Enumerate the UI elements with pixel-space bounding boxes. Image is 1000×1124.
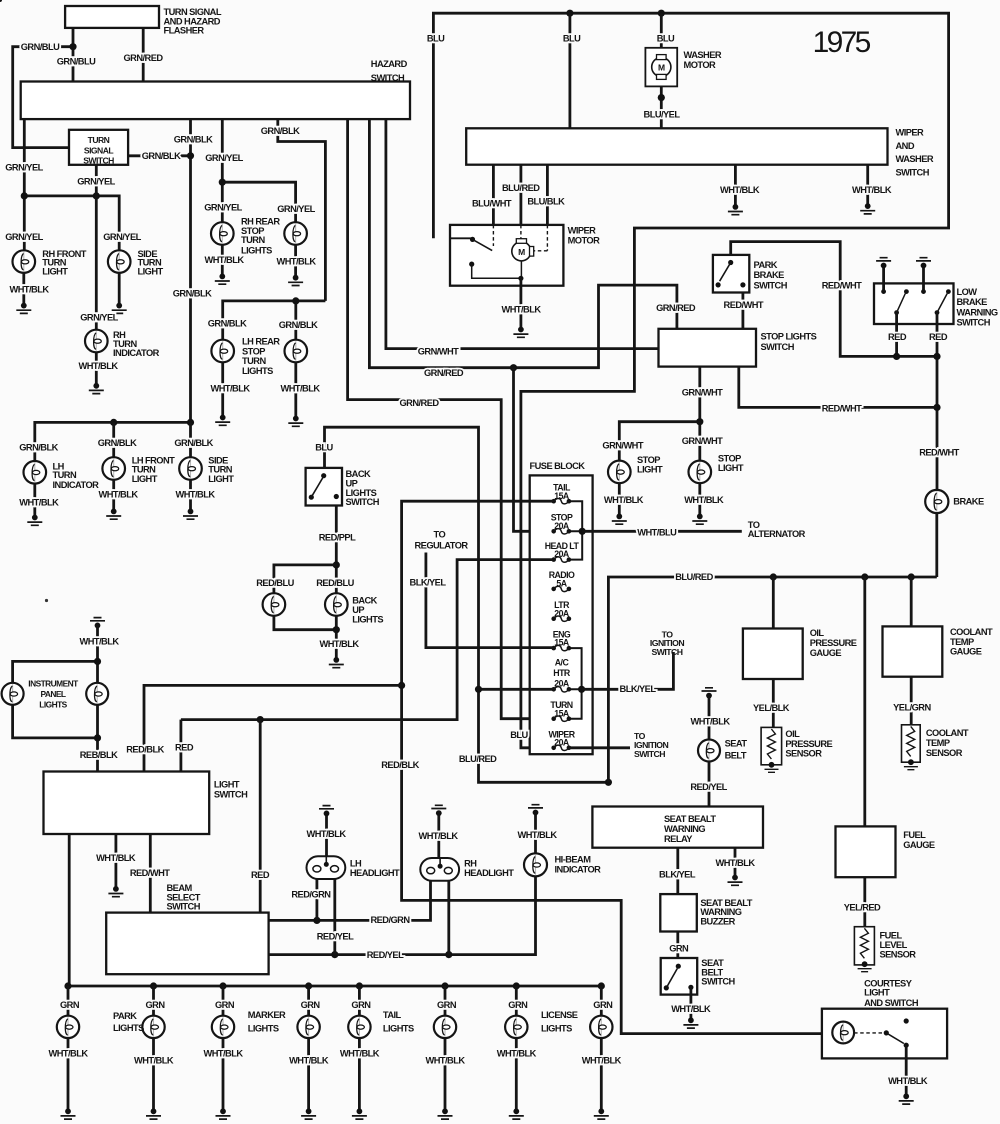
junction RED/BLU [333, 561, 340, 568]
junction instrument top [94, 658, 101, 665]
svg-text:LEVEL: LEVEL [880, 940, 908, 950]
wire BLU to washer motor [660, 13, 663, 48]
bulb license right [590, 1016, 612, 1038]
svg-text:GRN: GRN [593, 1000, 613, 1010]
ground relay [728, 875, 743, 886]
svg-text:RED/WHT: RED/WHT [822, 280, 862, 290]
ground hi-beam [528, 805, 543, 816]
svg-text:WHT/BLK: WHT/BLK [78, 361, 118, 371]
wire WHT/BLK wiper switch gnd 1 [734, 165, 737, 207]
wire GRN/WHT hazard to stop sw [386, 119, 659, 349]
svg-text:RED/WHT: RED/WHT [822, 403, 862, 413]
svg-text:TO: TO [434, 529, 446, 539]
wire lh ind gnd [33, 484, 36, 518]
svg-text:BLK/YEL: BLK/YEL [659, 870, 696, 880]
wire BLU/BLK wiper feed [546, 165, 549, 225]
wire fuel gauge feed [863, 577, 866, 826]
svg-text:GRN/WHT: GRN/WHT [602, 440, 643, 450]
wire WHT/BLK tail right gnd [444, 1038, 447, 1111]
wire GRN drop light 7 [515, 986, 518, 1016]
wire GRN/BLK stub from turn signal switch [128, 154, 190, 157]
svg-text:RED: RED [888, 332, 907, 342]
wire GRN/YEL hazard to RH front turn [23, 119, 26, 262]
svg-text:TEMP: TEMP [926, 738, 950, 748]
svg-text:BEAM: BEAM [167, 883, 193, 893]
ground low brake 1 [876, 258, 891, 269]
wire RED/PPL [335, 506, 338, 605]
bulb RH front turn light [12, 250, 35, 273]
wire oil gauge feed [772, 577, 775, 629]
svg-text:GRN/BLK: GRN/BLK [208, 319, 247, 329]
svg-text:MOTOR: MOTOR [568, 235, 601, 245]
svg-text:GAUGE: GAUGE [950, 647, 982, 657]
wire WHT/BLK wiper motor gnd [520, 278, 523, 329]
svg-text:GRN/BLK: GRN/BLK [142, 151, 181, 161]
svg-text:AND SWITCH: AND SWITCH [864, 998, 919, 1008]
svg-text:WIPER: WIPER [896, 128, 925, 138]
junction BLU washer motor branch [658, 10, 665, 17]
wire GRN/BLK lh front drop [112, 422, 115, 468]
ground wiper switch 1 [728, 204, 743, 215]
junction bus light 1 [64, 982, 71, 989]
wire fuse chain ENG-AC-TURN [569, 648, 582, 719]
svg-text:WHT/BLK: WHT/BLK [280, 384, 320, 394]
wire backup gnd left [274, 616, 336, 630]
svg-text:GRN/WHT: GRN/WHT [682, 436, 723, 446]
RH headlight [420, 858, 459, 881]
bulb marker right [297, 1016, 319, 1038]
junction LH row b [187, 419, 194, 426]
bulb stop light left [608, 461, 631, 484]
svg-text:RED/YEL: RED/YEL [367, 950, 404, 960]
svg-text:RED/BLU: RED/BLU [256, 578, 294, 588]
svg-text:WHT/BLK: WHT/BLK [96, 853, 136, 863]
svg-text:GRN/WHT: GRN/WHT [682, 388, 723, 398]
svg-text:WHT/BLK: WHT/BLK [604, 495, 644, 505]
svg-text:BRAKE: BRAKE [953, 497, 984, 507]
wire brake to bus [935, 513, 938, 577]
svg-text:RED: RED [251, 870, 270, 880]
oil pressure gauge [743, 629, 803, 680]
svg-text:SWITCH: SWITCH [896, 167, 930, 177]
wire WHT/BLK rr right gnd [294, 245, 297, 278]
svg-text:SWITCH: SWITCH [754, 280, 788, 290]
bulb tail right [434, 1016, 456, 1038]
wire GRN drop light 1 [67, 986, 70, 1016]
bulb courtesy light [832, 1022, 854, 1044]
wire RED/GRN beam to headlights [269, 872, 431, 921]
seat belt switch internals [664, 964, 694, 991]
wire GRN bottom bus [68, 985, 601, 988]
fuse WIPER 20A [551, 745, 571, 750]
ground seat belt bulb [702, 688, 717, 699]
wire WHT/BLK lh rear right gnd [294, 362, 297, 418]
ground oil sensor [765, 762, 779, 772]
svg-text:M: M [518, 247, 525, 257]
svg-text:YEL/RED: YEL/RED [844, 902, 881, 912]
junction instrument bottom [94, 734, 101, 741]
bulb back up left [263, 593, 286, 616]
fuse HEAD LT 20A [551, 557, 571, 562]
hazard switch [21, 82, 410, 120]
junction RED/GRN lh [313, 917, 320, 924]
wire BLU supply top bus [433, 13, 948, 748]
coolant temp sensor [902, 725, 921, 762]
svg-text:LIGHTS: LIGHTS [241, 246, 272, 256]
junction GRN/BLK LH rear [292, 297, 299, 304]
wire WHT/BLK sbs gnd [690, 987, 693, 1020]
svg-text:WASHER: WASHER [896, 154, 934, 164]
svg-text:LIGHT: LIGHT [208, 474, 234, 484]
wire GRN/YEL branch RH rear right [222, 182, 295, 233]
bulb LH rear stop turn left [211, 340, 234, 363]
bulb marker left [212, 1016, 234, 1038]
svg-text:OIL: OIL [810, 628, 825, 638]
wire RED low brake 1 [895, 313, 898, 357]
svg-text:WIPER: WIPER [568, 226, 597, 236]
low brake warning switch [874, 283, 954, 324]
svg-text:RED/YEL: RED/YEL [317, 931, 354, 941]
junction fuse chain BLK/YEL [578, 686, 585, 693]
junction RED/YEL rh [445, 951, 452, 958]
junction GRN/YEL b [93, 192, 100, 199]
svg-text:BLU/WHT: BLU/WHT [472, 199, 512, 209]
svg-text:RED/WHT: RED/WHT [724, 300, 764, 310]
wire RED light switch drop [179, 720, 182, 772]
svg-text:WHT/BLK: WHT/BLK [9, 285, 49, 295]
wire flasher left leg GRN/BLU [72, 28, 75, 82]
ground side turn [112, 303, 127, 314]
svg-text:LIGHTS: LIGHTS [242, 366, 273, 376]
svg-text:SWITCH: SWITCH [652, 647, 683, 657]
svg-text:WHT/BLK: WHT/BLK [425, 1056, 465, 1066]
ground stop light right [692, 514, 707, 525]
svg-text:WHT/BLK: WHT/BLK [497, 1049, 537, 1059]
ground stop light left [612, 514, 627, 525]
svg-text:SENSOR: SENSOR [785, 749, 822, 759]
LH headlight [307, 856, 346, 879]
svg-text:BLU: BLU [315, 443, 333, 453]
wire BLU/RED bus to gauges [608, 577, 936, 782]
low brake warning switch internals [881, 289, 951, 315]
wire GRN drop light 3 [222, 986, 225, 1016]
wire BLU/RED net [325, 427, 609, 782]
junction RED/WHT c [933, 404, 940, 411]
wiper motor internals [0, 0, 547, 281]
wire BLU/YEL washer to switch [660, 86, 663, 128]
ground license left [509, 1108, 524, 1119]
wire instrument lights loop [13, 661, 98, 738]
ground backup lights [329, 657, 344, 668]
svg-text:WHT/BLK: WHT/BLK [276, 257, 316, 267]
svg-text:REB/BLK: REB/BLK [80, 750, 118, 760]
svg-text:MOTOR: MOTOR [684, 60, 717, 70]
wire WHT/BLK marker right gnd [307, 1038, 310, 1111]
junction bus light 8 [598, 982, 605, 989]
ground instrument lights [90, 618, 105, 629]
wire backup gnd right [335, 616, 338, 660]
wire RED to beam select [259, 720, 262, 913]
ground park left [61, 1108, 76, 1119]
junction RED/BLK light switch branch [398, 682, 405, 689]
junction bus light 7 [513, 982, 520, 989]
wire GRN/RED to stop fuse [514, 368, 553, 532]
ground RH front turn [16, 303, 31, 314]
wire BLK/YEL AC fuse to ignition [479, 688, 556, 691]
svg-text:WHT/BLK: WHT/BLK [175, 489, 215, 499]
svg-text:GRN/YEL: GRN/YEL [5, 232, 43, 242]
junction backup gnd [333, 626, 340, 633]
wire GRN/RED hazard to stop sw [369, 119, 677, 368]
svg-text:WHT/BLK: WHT/BLK [98, 489, 138, 499]
svg-text:BLU: BLU [427, 33, 445, 43]
junction BLU/RED relay [605, 779, 612, 786]
wire GRN/BLK to LH rear lights [278, 119, 326, 301]
svg-text:BLU/RED: BLU/RED [459, 754, 497, 764]
coolant temp gauge [883, 626, 943, 676]
svg-text:RED/WHT: RED/WHT [919, 448, 959, 458]
svg-text:PRESSURE: PRESSURE [810, 638, 857, 648]
svg-text:WHT/BLK: WHT/BLK [690, 716, 730, 726]
wire RED light switch feed [181, 718, 260, 721]
wire BLK/YEL to ignition switch [582, 652, 674, 689]
svg-text:SWITCH: SWITCH [214, 790, 248, 800]
ground wiper motor [513, 327, 528, 338]
wire lh front gnd [112, 480, 115, 512]
svg-text:WHT/BLK: WHT/BLK [715, 858, 755, 868]
svg-text:GRN/YEL: GRN/YEL [205, 153, 243, 163]
svg-text:WARNING: WARNING [664, 824, 705, 834]
wire GRN/BLK hazard bus [189, 119, 192, 422]
svg-text:GRN: GRN [60, 1000, 80, 1010]
svg-text:WASHER: WASHER [684, 50, 722, 60]
wire GRN/RED hazard to turn fuse [348, 119, 554, 719]
bulb stop light right [689, 461, 712, 484]
svg-text:WARNING: WARNING [957, 307, 998, 317]
wire fuse chain TAIL-STOP-HEADLT [569, 501, 582, 559]
svg-text:WHT/BLK: WHT/BLK [19, 497, 59, 507]
svg-text:GRN/RED: GRN/RED [424, 368, 464, 378]
svg-text:WHT/BLK: WHT/BLK [79, 637, 119, 647]
svg-text:HEADLIGHT: HEADLIGHT [350, 868, 400, 878]
wire flasher right leg GRN/RED [142, 28, 145, 82]
svg-text:COOLANT: COOLANT [950, 627, 993, 637]
svg-text:LIGHT: LIGHT [42, 266, 68, 276]
bulb instrument panel right [86, 683, 108, 705]
svg-text:GRN/BLK: GRN/BLK [173, 288, 212, 298]
svg-text:RED/WHT: RED/WHT [130, 868, 170, 878]
bulb LH front turn light [102, 457, 125, 480]
svg-text:TURN: TURN [241, 235, 265, 245]
wire RED/WHT stop sw out [739, 367, 937, 408]
wire RED/YEL seat belt [708, 762, 711, 807]
svg-text:GRN/BLK: GRN/BLK [98, 438, 137, 448]
svg-text:STOP LIGHTS: STOP LIGHTS [761, 331, 817, 341]
bulb seat belt [698, 740, 720, 762]
park brake switch internals [716, 260, 746, 288]
svg-text:BLU/RED: BLU/RED [675, 572, 713, 582]
wire BLU/WHT wiper feed [492, 165, 495, 225]
ground park right [146, 1108, 161, 1119]
ground LH rear right [288, 416, 303, 427]
ground tail left [352, 1108, 367, 1119]
svg-text:GRN/BLK: GRN/BLK [174, 438, 213, 448]
svg-text:BRAKE: BRAKE [754, 270, 785, 280]
svg-text:GRN/BLK: GRN/BLK [19, 442, 58, 452]
svg-text:TAIL: TAIL [383, 1010, 402, 1020]
svg-text:RED/BLK: RED/BLK [126, 745, 164, 755]
park brake switch [713, 255, 749, 293]
wiper motor U2 [450, 225, 563, 286]
stray mark [45, 599, 48, 602]
svg-text:TURN: TURN [208, 465, 232, 475]
wire WHT/BLK rh front gnd [22, 273, 25, 306]
wire RED/BLK tail fuse feed [402, 501, 833, 1033]
svg-text:A/C: A/C [555, 658, 570, 668]
svg-text:BUZZER: BUZZER [700, 917, 735, 927]
svg-text:HAZARD: HAZARD [371, 59, 408, 69]
courtesy switch internals [854, 1018, 909, 1047]
ground low brake 2 [916, 258, 931, 269]
svg-text:GRN/YEL: GRN/YEL [5, 163, 43, 173]
svg-text:INDICATOR: INDICATOR [555, 865, 602, 875]
wire RED/YEL beam to headlights [269, 876, 536, 954]
wire GRN/WHT stop light left [619, 422, 700, 472]
svg-text:WHT/BLK: WHT/BLK [684, 495, 724, 505]
svg-text:WHT/BLK: WHT/BLK [289, 1056, 329, 1066]
svg-text:YEL/BLK: YEL/BLK [753, 703, 790, 713]
wire GRN buzzer to switch [676, 932, 679, 959]
wire GRN/BLK LH rear branch [223, 301, 326, 351]
bulb brake [925, 490, 948, 513]
wire WHT/BLK instrument gnd [96, 625, 99, 661]
svg-text:SENSOR: SENSOR [926, 748, 963, 758]
junction GRN/BLK stub [187, 152, 194, 159]
svg-text:SWITCH: SWITCH [957, 318, 991, 328]
svg-text:GRN/BLU: GRN/BLU [57, 57, 96, 67]
svg-text:LIGHT: LIGHT [637, 464, 663, 474]
ground RH rear left [215, 274, 230, 285]
junction GRN/RED stop fuse branch [510, 364, 517, 371]
wire GRN/YEL branch to side turn light [24, 196, 119, 262]
svg-text:BLK/YEL: BLK/YEL [620, 684, 657, 694]
svg-text:SIGNAL: SIGNAL [84, 146, 113, 156]
svg-text:WHT/BLK: WHT/BLK [210, 384, 250, 394]
svg-text:INSTRUMENT: INSTRUMENT [28, 679, 79, 689]
light switch [44, 772, 210, 835]
svg-text:LIGHTS: LIGHTS [383, 1023, 414, 1033]
wire BLK/YEL to regulator [426, 553, 554, 648]
svg-text:INDICATOR: INDICATOR [53, 480, 100, 490]
wire WHT/BLK tail left gnd [358, 1038, 361, 1111]
wire BLU/RED wiper feed [520, 165, 523, 225]
svg-text:SWITCH: SWITCH [634, 749, 665, 759]
svg-text:REGULATOR: REGULATOR [415, 540, 469, 550]
svg-text:GRN: GRN [351, 1000, 371, 1010]
svg-text:LH REAR: LH REAR [242, 337, 280, 347]
svg-text:LIGHT: LIGHT [864, 988, 890, 998]
bulb license left [505, 1016, 527, 1038]
svg-text:RED/GRN: RED/GRN [291, 890, 331, 900]
ground LH front turn [106, 509, 121, 520]
fuse LTR 20A [551, 616, 571, 621]
bulb tail left [348, 1016, 370, 1038]
wire WHT/BLK park right gnd [152, 1038, 155, 1111]
turn signal switch [69, 130, 128, 165]
wire instrument lights center [96, 661, 99, 771]
wire RED/BLK branch to light switch [144, 685, 402, 771]
svg-text:SEAT BEALT: SEAT BEALT [664, 814, 716, 824]
ground courtesy [899, 1093, 914, 1104]
ground LH headlight [319, 806, 334, 817]
svg-text:FUEL: FUEL [903, 830, 926, 840]
fuse block [530, 475, 593, 754]
svg-text:RED/BLK: RED/BLK [381, 760, 419, 770]
svg-text:GRN/RED: GRN/RED [399, 398, 439, 408]
svg-text:TEMP: TEMP [950, 637, 974, 647]
svg-text:TURN: TURN [53, 470, 77, 480]
wire WHT/BLK license right gnd [600, 1038, 603, 1111]
wire RED/WHT park brake feed [731, 242, 937, 357]
wire WHT/BLK marker left gnd [222, 1038, 225, 1111]
svg-text:GRN/BLU: GRN/BLU [21, 42, 60, 52]
ground LH turn ind [27, 515, 42, 526]
svg-text:WHT/BLK: WHT/BLK [582, 1056, 622, 1066]
bulb side turn light [108, 250, 131, 273]
bulb LH rear stop turn right [285, 340, 308, 363]
svg-text:LIGHTS: LIGHTS [113, 1023, 144, 1033]
svg-text:GRN/BLK: GRN/BLK [279, 320, 318, 330]
svg-text:BLU: BLU [510, 730, 528, 740]
wire GRN/YEL to RH rear left [221, 119, 224, 233]
wire YEL/BLK [772, 679, 775, 727]
wiper and washer switch [466, 128, 887, 164]
junction GRN/WHT [696, 418, 703, 425]
svg-text:BLU/BLK: BLU/BLK [527, 197, 565, 207]
junction BLU washer branch [566, 10, 573, 17]
svg-text:SENSOR: SENSOR [880, 950, 917, 960]
junction RED beam branch [257, 716, 264, 723]
svg-text:WHT/BLU: WHT/BLU [637, 527, 677, 537]
svg-text:WHT/BLK: WHT/BLK [671, 1004, 711, 1014]
wire side2 gnd [189, 480, 192, 512]
svg-text:OIL: OIL [785, 729, 800, 739]
svg-text:YEL/GRN: YEL/GRN [893, 702, 931, 712]
ground marker left [216, 1108, 231, 1119]
svg-text:SWITCH: SWITCH [167, 902, 201, 912]
svg-text:1975: 1975 [813, 26, 871, 59]
wire GRN/BLK LH rear right drop [294, 301, 297, 351]
svg-text:GRN: GRN [145, 1000, 165, 1010]
wire low brake gnd 1 [882, 266, 885, 292]
svg-text:WHT/BLK: WHT/BLK [418, 831, 458, 841]
back up lights switch internals [309, 473, 339, 500]
svg-text:WHT/BLK: WHT/BLK [203, 1049, 243, 1059]
svg-text:FLASHER: FLASHER [164, 26, 205, 36]
wire GRN drop light 8 [600, 986, 603, 1016]
svg-text:BLU: BLU [563, 33, 581, 43]
wire YEL/GRN [910, 677, 913, 725]
junction RED/YEL lh [331, 951, 338, 958]
ground RH turn indicator [89, 383, 104, 394]
ground fuel sensor [858, 961, 872, 971]
svg-text:COOLANT: COOLANT [926, 728, 969, 738]
ground license right [594, 1108, 609, 1119]
wire RED/WHT park brake out [742, 293, 745, 329]
ground light switch [108, 886, 123, 897]
junction washer motor lead [658, 94, 665, 101]
bulb instrument panel left [2, 683, 24, 705]
